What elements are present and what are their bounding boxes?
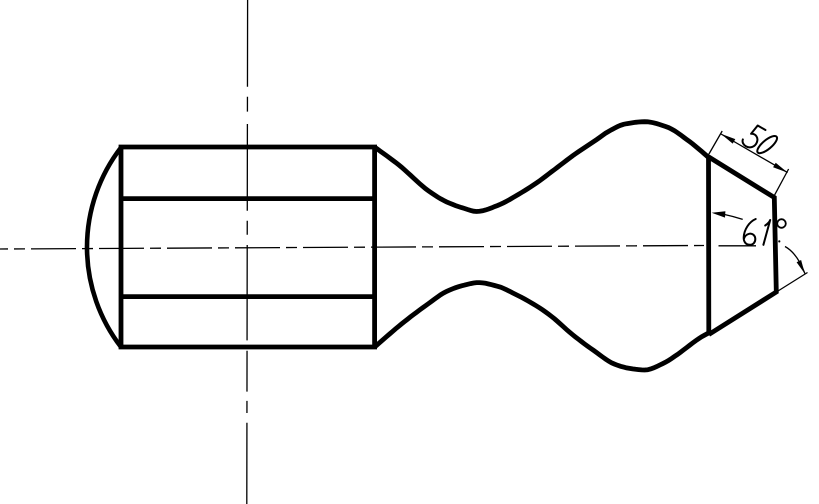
hex face line upper bbox=[121, 196, 375, 201]
digit 1 bbox=[763, 220, 770, 245]
vertical centerline bbox=[246, 0, 249, 504]
horizontal centerline bbox=[0, 246, 704, 250]
61 text underline bbox=[719, 245, 757, 247]
leader arrow for 61 bbox=[724, 214, 743, 219]
dim 50 text "50" drawn as CAD script strokes bbox=[740, 121, 781, 160]
dim 50 extension line 1 bbox=[708, 131, 723, 157]
neck bottom curve bbox=[375, 283, 709, 370]
dim 50 extension line 2 bbox=[775, 169, 789, 195]
neck top curve bbox=[375, 122, 709, 212]
digit 0 bbox=[755, 133, 780, 156]
hex head outline bbox=[121, 147, 375, 347]
left spherical end arc bbox=[87, 148, 121, 348]
angle arrowhead bbox=[797, 260, 805, 274]
dim 50 dimension line bbox=[721, 134, 788, 173]
stray dot near degree sign bbox=[778, 240, 780, 242]
dim 50 arrowhead left bbox=[721, 134, 736, 144]
digit 5 bbox=[741, 123, 766, 151]
cone tip outline bbox=[709, 157, 777, 335]
hex face line lower bbox=[121, 294, 375, 299]
angle extension line bbox=[777, 273, 807, 292]
61 degree text drawn as CAD script strokes bbox=[744, 219, 786, 245]
leader arrowhead bbox=[712, 211, 726, 217]
angle arc with arrow bbox=[785, 247, 805, 274]
digit 6 bbox=[744, 219, 756, 245]
dim 50 arrowhead right bbox=[773, 163, 788, 173]
degree sign bbox=[777, 219, 786, 228]
